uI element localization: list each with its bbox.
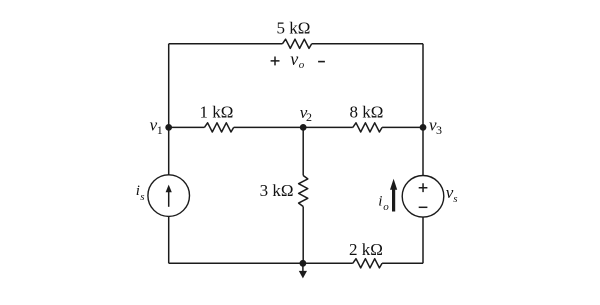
svg-text:s: s xyxy=(140,191,144,203)
svg-text:i: i xyxy=(378,193,382,209)
wire middle-center segment (1k to 8k through v2) xyxy=(234,126,353,128)
current source is arrow (up) xyxy=(166,185,172,207)
label v2 xyxy=(300,103,312,124)
node v2 junction dot xyxy=(300,124,307,131)
svg-text:3: 3 xyxy=(436,123,442,137)
svg-text:2 kΩ: 2 kΩ xyxy=(349,240,383,259)
ground symbol (arrow down) xyxy=(299,263,307,278)
svg-text:1 kΩ: 1 kΩ xyxy=(200,102,234,121)
wire top-left segment xyxy=(169,43,283,45)
label is (current source) xyxy=(136,183,145,203)
svg-text:2: 2 xyxy=(306,110,312,124)
wire right vertical upper xyxy=(422,44,424,176)
svg-text:5 kΩ: 5 kΩ xyxy=(277,19,311,38)
resistor 5 kOhm (top) xyxy=(282,39,311,48)
wire middle-right segment (8k to v3) xyxy=(382,126,423,128)
node v1 junction dot xyxy=(165,124,172,131)
label v1 xyxy=(150,115,163,136)
wire bottom-left segment xyxy=(169,262,353,264)
label v3 xyxy=(429,115,442,136)
node v3 junction dot xyxy=(420,124,427,131)
node ground junction dot (bottom) xyxy=(300,260,307,267)
wire bottom-right segment xyxy=(382,262,423,264)
wire middle-left segment (v1 to 1k) xyxy=(169,126,205,128)
resistor 2 kOhm (bottom) xyxy=(353,259,382,268)
wire left vertical upper (v1 branch top) xyxy=(168,44,170,175)
resistor 8 kOhm xyxy=(353,123,382,132)
label io xyxy=(378,193,389,213)
svg-text:s: s xyxy=(453,193,457,205)
wire right vertical lower xyxy=(422,217,424,263)
voltage source vs circle xyxy=(402,176,444,218)
resistor 1 kOhm xyxy=(204,123,233,132)
svg-text:1: 1 xyxy=(157,123,163,137)
svg-text:o: o xyxy=(299,59,305,71)
svg-text:3 kΩ: 3 kΩ xyxy=(260,181,294,200)
label vs (voltage source) xyxy=(446,183,458,205)
wire left vertical lower xyxy=(168,216,170,263)
current source is circle xyxy=(148,175,190,217)
resistor 3 kOhm (vertical) xyxy=(299,176,308,207)
svg-text:o: o xyxy=(383,201,389,213)
label vo xyxy=(290,49,305,71)
wire top-right segment xyxy=(312,43,423,45)
wire middle vertical upper (v2 branch) xyxy=(302,127,304,175)
wire middle vertical lower xyxy=(302,207,304,264)
label minus sign of vo xyxy=(318,61,325,63)
label plus sign inside vs xyxy=(419,183,428,192)
io arrow (bold, up) xyxy=(390,179,397,212)
label plus sign of vo xyxy=(271,57,280,66)
svg-text:v: v xyxy=(290,49,298,69)
svg-text:8 kΩ: 8 kΩ xyxy=(350,102,384,121)
label minus sign inside vs xyxy=(419,206,428,208)
